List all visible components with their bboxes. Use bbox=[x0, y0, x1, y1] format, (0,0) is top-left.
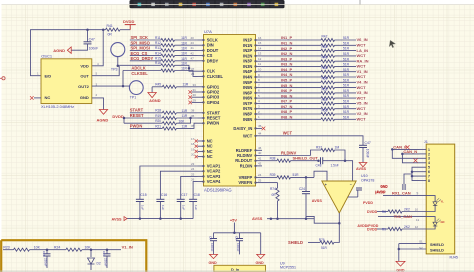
resistor R41 bbox=[103, 29, 105, 31]
svg-text:11R: 11R bbox=[182, 109, 188, 113]
svg-text:V2_IN: V2_IN bbox=[357, 111, 368, 116]
net ADCLK wire + resistor R16 bbox=[119, 64, 161, 66]
svg-text:4: 4 bbox=[428, 161, 430, 165]
svg-text:R50: R50 bbox=[322, 77, 328, 81]
svg-text:R38: R38 bbox=[270, 157, 276, 161]
IC right pin names IN bbox=[243, 38, 262, 122]
svg-text:R48: R48 bbox=[322, 66, 328, 70]
svg-text:AGND: AGND bbox=[149, 98, 161, 103]
svg-text:R18: R18 bbox=[155, 109, 161, 113]
capacitor C21 220nF bbox=[106, 248, 109, 251]
svg-text:23: 23 bbox=[191, 162, 195, 166]
svg-text:51R: 51R bbox=[343, 100, 350, 104]
svg-text:SHIELD: SHIELD bbox=[288, 240, 303, 245]
svg-text:12: 12 bbox=[415, 225, 419, 229]
no-ERC crosses NC pins bbox=[191, 137, 198, 158]
net START wire + resistor R18 bbox=[130, 112, 163, 114]
net CLKSEL wire + resistor R17 bbox=[123, 70, 161, 72]
svg-text:11R: 11R bbox=[181, 57, 187, 61]
svg-text:C47: C47 bbox=[365, 141, 371, 145]
net IN6_P wire + resistor R52 bbox=[262, 92, 321, 94]
svg-text:C9: C9 bbox=[235, 236, 239, 240]
wire op-amp output bbox=[338, 213, 340, 223]
LED indicator D-YL bbox=[426, 196, 435, 202]
wire VREFP to op-amp non-inverting input bbox=[314, 171, 327, 181]
svg-text:51R: 51R bbox=[343, 84, 350, 88]
net IN5_P wire + resistor R50 bbox=[262, 81, 321, 83]
svg-text:ADS1298IPAG: ADS1298IPAG bbox=[204, 188, 232, 193]
svg-text:2K2: 2K2 bbox=[404, 207, 410, 211]
svg-text:11R: 11R bbox=[181, 52, 187, 56]
svg-text:47: 47 bbox=[191, 57, 195, 61]
svg-text:5: 5 bbox=[428, 166, 430, 170]
svg-text:J1: J1 bbox=[424, 140, 428, 144]
capacitor C49 bbox=[359, 144, 367, 146]
svg-text:SHIELD_OUT: SHIELD_OUT bbox=[293, 156, 319, 161]
IC right pin names lower bbox=[233, 126, 262, 185]
svg-text:R44: R44 bbox=[322, 45, 328, 49]
mouse cursor bbox=[389, 40, 395, 48]
svg-text:DRDY: DRDY bbox=[207, 58, 219, 63]
capacitor C16 bbox=[160, 171, 197, 199]
net IN4_P wire + resistor R48 bbox=[262, 71, 321, 73]
net SPI_SCK wire + resistor R11 bbox=[130, 39, 161, 41]
capacitor C47 bbox=[87, 30, 89, 42]
differential pair marker lower bbox=[414, 159, 418, 163]
wire CAN_N to pin4 bbox=[402, 154, 419, 163]
svg-text:24: 24 bbox=[191, 167, 195, 171]
svg-text:11R: 11R bbox=[182, 125, 188, 129]
svg-text:42: 42 bbox=[191, 51, 195, 55]
wire OUT2 to CLKSEL rail bbox=[122, 71, 124, 87]
svg-text:WCT: WCT bbox=[357, 106, 367, 111]
net ECG_CS wire + resistor R14 bbox=[130, 55, 161, 57]
svg-text:41: 41 bbox=[191, 46, 195, 50]
ruler tick bbox=[359, 0, 361, 5]
svg-text:V5_IN: V5_IN bbox=[357, 101, 368, 106]
svg-text:R56: R56 bbox=[322, 108, 328, 112]
wire decoupling rail bbox=[214, 232, 261, 234]
net IN1_N wire + resistor R43 bbox=[262, 44, 321, 46]
svg-text:RESET: RESET bbox=[130, 113, 144, 118]
svg-text:OSC1: OSC1 bbox=[41, 54, 53, 59]
svg-text:R74: R74 bbox=[270, 187, 276, 191]
svg-text:25: 25 bbox=[258, 178, 262, 182]
svg-text:ADCLK: ADCLK bbox=[131, 66, 145, 71]
svg-text:IN4_P: IN4_P bbox=[281, 67, 292, 72]
svg-text:36: 36 bbox=[191, 114, 195, 118]
svg-text:R41: R41 bbox=[107, 24, 113, 28]
svg-text:51R: 51R bbox=[343, 47, 350, 51]
screenshot toolbar overlay bbox=[130, 0, 285, 8]
svg-text:IN7N: IN7N bbox=[243, 106, 252, 111]
capacitor C9 (100nF/50V) bbox=[239, 233, 241, 239]
no-ERC cross GPIO4 bbox=[192, 101, 198, 103]
svg-text:220nF: 220nF bbox=[104, 258, 108, 267]
net IN8_N wire + resistor R57 bbox=[262, 118, 321, 120]
svg-text:IN1N: IN1N bbox=[243, 43, 252, 48]
power rail AVSS bottom bbox=[267, 218, 314, 220]
net IN6_N wire + resistor R53 bbox=[262, 97, 321, 99]
no-ERC cross NC pin bbox=[34, 97, 41, 99]
wire R45 to AGND bbox=[151, 87, 153, 93]
svg-text:AVSS: AVSS bbox=[356, 167, 367, 171]
svg-text:100nF: 100nF bbox=[365, 149, 369, 158]
svg-text:R20: R20 bbox=[155, 119, 161, 123]
svg-text:RLDIN: RLDIN bbox=[240, 163, 253, 168]
svg-text:51R: 51R bbox=[343, 115, 350, 119]
svg-text:51R: 51R bbox=[343, 63, 350, 67]
svg-text:VDD: VDD bbox=[80, 63, 89, 68]
wire pins 5-8 common bbox=[412, 167, 420, 180]
ground GND (c9/right) bbox=[260, 233, 262, 255]
svg-text:8: 8 bbox=[428, 179, 430, 183]
svg-text:IN7_N: IN7_N bbox=[281, 104, 292, 109]
resistor R9 2K2 bbox=[377, 228, 388, 230]
net IN1_P wire + resistor R42 bbox=[262, 39, 321, 41]
svg-text:OPA378: OPA378 bbox=[361, 179, 374, 183]
svg-text:LA_IN: LA_IN bbox=[357, 48, 369, 53]
svg-text:+5V: +5V bbox=[230, 217, 237, 222]
net IN7_N wire + resistor R55 bbox=[262, 108, 321, 110]
net PWDN wire + resistor R21 bbox=[130, 127, 163, 129]
svg-text:SHIELD: SHIELD bbox=[430, 248, 444, 252]
svg-text:20: 20 bbox=[191, 153, 195, 157]
svg-text:IN2_N: IN2_N bbox=[281, 51, 292, 56]
capacitor to GND (j1 term) bbox=[404, 174, 412, 184]
svg-text:XLH105-2.048MHz: XLH105-2.048MHz bbox=[41, 104, 74, 109]
ground GND (shield) bbox=[396, 261, 405, 266]
differential pair marker CAN_P bbox=[406, 145, 410, 149]
svg-text:ECG_DRDY: ECG_DRDY bbox=[131, 56, 154, 61]
svg-text:11R: 11R bbox=[181, 47, 187, 51]
svg-text:DVDD: DVDD bbox=[367, 210, 378, 214]
capacitor C24 bbox=[305, 177, 307, 191]
svg-text:R42: R42 bbox=[322, 34, 328, 38]
svg-text:1M: 1M bbox=[335, 146, 340, 150]
svg-text:R46: R46 bbox=[322, 56, 328, 60]
net VREFN wire bbox=[262, 182, 278, 184]
svg-text:3: 3 bbox=[428, 157, 430, 161]
svg-text:GND: GND bbox=[80, 95, 89, 100]
svg-text:10K: 10K bbox=[179, 119, 186, 123]
svg-text:11R: 11R bbox=[181, 41, 187, 45]
svg-text:19: 19 bbox=[191, 147, 195, 151]
svg-text:C15: C15 bbox=[140, 193, 146, 197]
svg-text:R21: R21 bbox=[155, 124, 161, 128]
svg-text:IN5_P: IN5_P bbox=[281, 78, 292, 83]
svg-text:R37: R37 bbox=[316, 146, 322, 150]
power port AGND (gpio) bbox=[148, 93, 156, 98]
svg-text:25: 25 bbox=[191, 172, 195, 176]
svg-text:R8: R8 bbox=[382, 210, 386, 214]
svg-text:41: 41 bbox=[258, 156, 262, 160]
svg-text:11: 11 bbox=[416, 218, 419, 222]
capacitor C20 220nF bbox=[46, 248, 49, 251]
svg-text:NC: NC bbox=[45, 95, 51, 100]
svg-text:GND: GND bbox=[256, 261, 265, 265]
sheet top edge bbox=[2, 4, 474, 6]
wire feedback to output bbox=[306, 216, 339, 223]
net RLDINV wire bbox=[262, 155, 311, 157]
svg-text:0R: 0R bbox=[272, 193, 277, 197]
svg-text:GND: GND bbox=[209, 261, 218, 265]
op-amp power stubs bbox=[348, 196, 358, 198]
resistor R74 0R bbox=[277, 183, 279, 188]
svg-text:31: 31 bbox=[193, 88, 197, 92]
svg-text:51R: 51R bbox=[343, 105, 350, 109]
svg-text:C24: C24 bbox=[299, 187, 305, 191]
node VDD rail junction bbox=[102, 28, 105, 31]
svg-text:11R: 11R bbox=[181, 61, 187, 65]
capacitor C8 (100nF) bbox=[213, 233, 215, 239]
svg-text:WCT: WCT bbox=[357, 117, 367, 122]
svg-text:30: 30 bbox=[193, 93, 197, 97]
svg-text:IN1P: IN1P bbox=[243, 38, 252, 43]
svg-text:R14: R14 bbox=[155, 51, 161, 55]
resistor R37 1M feedback bbox=[311, 150, 322, 156]
svg-text:PWDN: PWDN bbox=[207, 121, 220, 126]
svg-text:10: 10 bbox=[415, 207, 419, 211]
svg-text:10K: 10K bbox=[34, 246, 41, 250]
svg-text:IN1_N: IN1_N bbox=[281, 41, 292, 46]
svg-text:SHIELD: SHIELD bbox=[430, 243, 444, 247]
svg-text:R15: R15 bbox=[155, 57, 161, 61]
svg-text:R13: R13 bbox=[155, 46, 161, 50]
svg-text:1uF: 1uF bbox=[182, 205, 186, 210]
svg-text:R19: R19 bbox=[155, 114, 161, 118]
svg-text:R12: R12 bbox=[155, 41, 161, 45]
wire C47 to AGND bbox=[71, 44, 87, 50]
svg-text:+: + bbox=[325, 183, 327, 187]
net VREFP wire + resistor R39 bbox=[262, 176, 277, 178]
svg-text:C18: C18 bbox=[194, 193, 200, 197]
svg-text:V1_IN: V1_IN bbox=[122, 245, 133, 250]
net IN8_P wire + resistor R56 bbox=[262, 113, 321, 115]
net TX1_CAN wire bbox=[378, 216, 426, 218]
svg-text:15: 15 bbox=[258, 41, 262, 45]
net CAN_N wire bbox=[402, 153, 419, 155]
svg-text:V4_IN: V4_IN bbox=[357, 80, 368, 85]
svg-text:IN7P: IN7P bbox=[243, 101, 252, 106]
wire shield to GND bbox=[399, 243, 426, 245]
wire C49 to AVSS bbox=[362, 148, 364, 163]
svg-text:R52: R52 bbox=[322, 87, 328, 91]
svg-text:DAISY_IN: DAISY_IN bbox=[233, 126, 252, 131]
svg-text:100nF: 100nF bbox=[89, 47, 99, 51]
svg-text:WCT: WCT bbox=[357, 53, 367, 58]
svg-text:RJ45: RJ45 bbox=[450, 256, 458, 260]
svg-text:TX1_CAN: TX1_CAN bbox=[394, 214, 412, 219]
wire OUT2 to TP1 bbox=[92, 85, 129, 87]
no-ERC cross GPIO3 bbox=[192, 96, 198, 98]
svg-text:IN5N: IN5N bbox=[243, 85, 252, 90]
capacitor C18 bbox=[193, 182, 197, 200]
node +5V junction bbox=[233, 232, 236, 235]
svg-text:IN5P: IN5P bbox=[243, 80, 252, 85]
svg-text:24: 24 bbox=[191, 72, 195, 76]
svg-text:IN1_P: IN1_P bbox=[281, 35, 292, 40]
wire RLD to op-amp inverting input bbox=[345, 161, 353, 181]
svg-text:51R: 51R bbox=[343, 78, 350, 82]
oscillator OSC1 bbox=[41, 59, 92, 104]
svg-text:IN7_P: IN7_P bbox=[281, 99, 292, 104]
svg-text:PWDN: PWDN bbox=[130, 123, 143, 128]
svg-text:11R: 11R bbox=[183, 83, 189, 87]
svg-text:(AVDD: (AVDD bbox=[375, 190, 386, 194]
transceiver U9 MCP2551 bbox=[214, 265, 266, 272]
svg-text:16: 16 bbox=[258, 36, 262, 40]
net ECG_DRDY wire + resistor R15 bbox=[130, 60, 161, 62]
svg-text:29: 29 bbox=[193, 98, 197, 102]
svg-text:100nF: 100nF bbox=[236, 243, 240, 252]
svg-text:AGND: AGND bbox=[97, 118, 109, 123]
svg-text:2: 2 bbox=[428, 152, 430, 156]
svg-text:46: 46 bbox=[258, 146, 262, 150]
svg-text:1uF: 1uF bbox=[194, 205, 198, 210]
svg-text:IN8_P: IN8_P bbox=[281, 109, 292, 114]
capacitor C15 bbox=[140, 166, 198, 199]
svg-text:IN2_P: IN2_P bbox=[281, 46, 292, 51]
net IN2_P wire + resistor R44 bbox=[262, 50, 321, 52]
LED indicator D-GN bbox=[426, 217, 435, 222]
svg-text:V6_IN: V6_IN bbox=[357, 37, 368, 42]
test point TP3 bbox=[111, 43, 125, 57]
svg-text:2K2: 2K2 bbox=[404, 225, 410, 229]
svg-text:C48: C48 bbox=[316, 164, 322, 168]
svg-text:R11: R11 bbox=[155, 36, 161, 40]
svg-text:R76: R76 bbox=[319, 238, 325, 242]
svg-text:IN6N: IN6N bbox=[243, 96, 252, 101]
power port AGND (cap) bbox=[67, 47, 71, 53]
svg-text:WCT: WCT bbox=[357, 64, 367, 69]
svg-text:C16: C16 bbox=[161, 193, 167, 197]
wire OSC E/D to top rail bbox=[31, 30, 104, 76]
svg-text:51R: 51R bbox=[293, 173, 300, 177]
svg-text:U10: U10 bbox=[361, 174, 368, 178]
svg-text:−: − bbox=[350, 183, 352, 187]
ground GND (c8) bbox=[210, 254, 218, 258]
svg-text:AVSS: AVSS bbox=[112, 218, 123, 222]
net SPI_MOSI wire + resistor R13 bbox=[130, 49, 161, 51]
svg-text:TP3: TP3 bbox=[111, 67, 118, 71]
svg-text:R23: R23 bbox=[3, 246, 9, 250]
svg-text:7: 7 bbox=[428, 175, 430, 179]
svg-text:C47: C47 bbox=[89, 37, 95, 41]
svg-text:DVDD: DVDD bbox=[123, 19, 134, 24]
svg-text:AVSS: AVSS bbox=[312, 199, 323, 203]
power port DVDD top bbox=[120, 29, 130, 31]
svg-text:9: 9 bbox=[417, 192, 419, 196]
svg-text:AVSS: AVSS bbox=[252, 216, 263, 221]
connector J1 RJ45 body bbox=[426, 144, 455, 254]
svg-text:14: 14 bbox=[258, 46, 262, 50]
svg-text:IN8P: IN8P bbox=[243, 112, 252, 117]
svg-text:18: 18 bbox=[191, 142, 195, 146]
net WCT wire bbox=[262, 136, 363, 146]
power port AVSS (wct) bbox=[359, 163, 367, 167]
op-amp ADC U7A body bbox=[204, 35, 256, 187]
svg-text:YL: YL bbox=[441, 200, 445, 204]
resistor R20 DVDD pull-up 10K bbox=[123, 118, 125, 123]
svg-text:10: 10 bbox=[258, 68, 262, 72]
svg-text:40: 40 bbox=[191, 36, 195, 40]
svg-text:U7A: U7A bbox=[204, 29, 212, 34]
svg-text:45: 45 bbox=[258, 124, 262, 128]
net IN7_P wire + resistor R54 bbox=[262, 102, 321, 104]
resistor R45 GPIO1 to AGND bbox=[152, 86, 162, 88]
pin numbers VCAP bbox=[191, 162, 195, 182]
svg-text:C8: C8 bbox=[209, 236, 213, 240]
svg-text:35: 35 bbox=[191, 124, 195, 128]
svg-text:C17: C17 bbox=[181, 193, 187, 197]
svg-text:IN3_N: IN3_N bbox=[281, 62, 292, 67]
svg-text:51R: 51R bbox=[343, 94, 350, 98]
svg-text:26: 26 bbox=[191, 178, 195, 182]
net SPI_MISO wire + resistor R12 bbox=[130, 44, 161, 46]
svg-text:17: 17 bbox=[191, 137, 195, 141]
svg-text:12: 12 bbox=[258, 57, 262, 61]
svg-text:IN8_N: IN8_N bbox=[281, 115, 292, 120]
svg-text:IN2P: IN2P bbox=[243, 48, 252, 53]
diode D2 ESD bbox=[90, 248, 93, 251]
power rail AVSS vcap bbox=[127, 218, 193, 220]
op-amp U10 OPA378 bbox=[322, 181, 356, 213]
svg-text:11R: 11R bbox=[181, 67, 187, 71]
port stub left edge bbox=[2, 77, 5, 80]
wire OSC GND down to AGND bbox=[92, 98, 104, 110]
svg-text:IN8N: IN8N bbox=[243, 117, 252, 122]
svg-text:51R: 51R bbox=[321, 246, 328, 250]
svg-text:IN4N: IN4N bbox=[243, 75, 252, 80]
svg-text:OUT: OUT bbox=[80, 73, 89, 78]
capacitor C48 bbox=[320, 157, 322, 164]
svg-text:CLKSEL: CLKSEL bbox=[207, 74, 224, 79]
svg-text:1uF: 1uF bbox=[141, 205, 145, 210]
svg-text:VREFN: VREFN bbox=[238, 180, 252, 185]
svg-text:100nF: 100nF bbox=[210, 243, 214, 252]
svg-text:PVDD: PVDD bbox=[363, 201, 373, 205]
svg-text:E/D: E/D bbox=[45, 73, 52, 78]
svg-text:51R: 51R bbox=[343, 68, 350, 72]
svg-text:C20: C20 bbox=[42, 251, 46, 257]
test point TP1 bbox=[129, 81, 143, 95]
svg-text:IN6_N: IN6_N bbox=[281, 93, 292, 98]
svg-text:RX1_CAN: RX1_CAN bbox=[392, 191, 411, 196]
svg-text:24: 24 bbox=[258, 173, 262, 177]
svg-text:WCT: WCT bbox=[357, 43, 367, 48]
net IN4_N wire + resistor R49 bbox=[262, 76, 321, 78]
svg-text:44: 44 bbox=[258, 132, 262, 136]
svg-text:S1: S1 bbox=[419, 240, 423, 244]
svg-text:33: 33 bbox=[193, 83, 197, 87]
svg-text:0R: 0R bbox=[108, 32, 113, 36]
svg-text:R45: R45 bbox=[155, 83, 161, 87]
svg-text:GND: GND bbox=[380, 185, 388, 189]
svg-text:R16: R16 bbox=[155, 61, 161, 65]
svg-text:38: 38 bbox=[191, 109, 195, 113]
node top rail junction C47 bbox=[86, 28, 89, 31]
no-ERC cross DAISY_IN bbox=[262, 127, 266, 131]
resistor R23 10K bbox=[3, 249, 14, 251]
svg-text:WCT: WCT bbox=[357, 85, 367, 90]
net IN3_P wire + resistor R46 bbox=[262, 60, 321, 62]
net IN3_N wire + resistor R47 bbox=[262, 65, 321, 67]
J1 pins 1-8 bbox=[420, 148, 431, 183]
net RLDOUT / SHIELD_OUT wire + resistor R38 bbox=[262, 160, 277, 162]
bottom blur strip bbox=[0, 270, 474, 272]
wire OUT to ADCLK rail bbox=[92, 66, 119, 76]
